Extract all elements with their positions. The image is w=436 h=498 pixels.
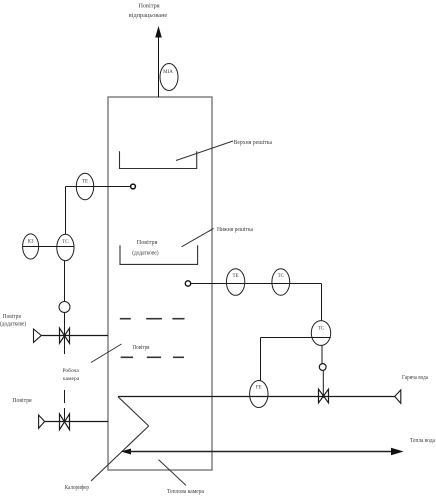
svg-text:Повітря: Повітря: [137, 239, 158, 246]
svg-text:Теплова камера: Теплова камера: [167, 488, 204, 495]
svg-text:ТС: ТС: [62, 240, 69, 245]
svg-text:(додаткове): (додаткове): [0, 321, 26, 328]
svg-text:ТЕ: ТЕ: [82, 180, 88, 185]
svg-text:FE: FE: [256, 386, 262, 391]
svg-text:Верхня решітка: Верхня решітка: [234, 139, 273, 146]
svg-text:ТЕ: ТЕ: [233, 274, 239, 279]
svg-text:КЗ: КЗ: [28, 240, 34, 245]
svg-text:ТС: ТС: [278, 274, 285, 279]
svg-text:Тепла вода: Тепла вода: [410, 438, 435, 444]
svg-text:Повітря: Повітря: [3, 313, 21, 320]
svg-text:камера: камера: [63, 376, 80, 382]
svg-text:Робоча: Робоча: [63, 367, 80, 374]
svg-text:відпрацьоване: відпрацьоване: [129, 12, 168, 19]
svg-text:Гаряча вода: Гаряча вода: [402, 375, 428, 381]
svg-text:Калорифер: Калорифер: [65, 484, 89, 491]
svg-text:(додаткове): (додаткове): [132, 250, 158, 257]
svg-text:МІА: МІА: [163, 70, 173, 75]
svg-text:Повітря: Повітря: [12, 397, 31, 404]
svg-text:Повітря: Повітря: [133, 344, 150, 351]
svg-text:Нижня решітка: Нижня решітка: [217, 226, 253, 233]
svg-text:Повітря: Повітря: [138, 2, 159, 9]
svg-text:ТС: ТС: [318, 327, 325, 332]
